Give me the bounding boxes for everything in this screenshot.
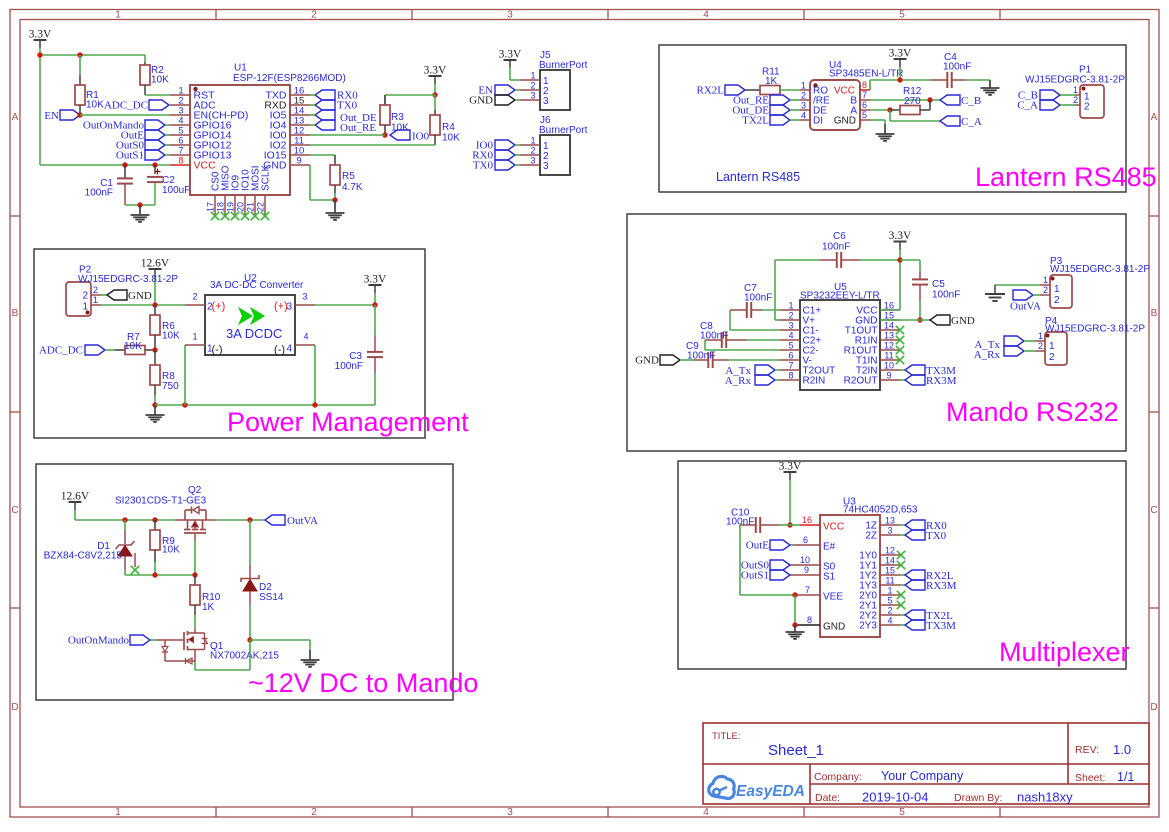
svg-text:BZX84-C8V2,215: BZX84-C8V2,215 — [44, 551, 123, 562]
svg-text:100uF: 100uF — [162, 185, 190, 196]
svg-text:TITLE:: TITLE: — [712, 731, 741, 742]
svg-text:3: 3 — [801, 101, 806, 111]
svg-text:Lantern RS485: Lantern RS485 — [975, 162, 1157, 192]
svg-text:GND: GND — [469, 95, 493, 107]
junction (155,575) — [152, 572, 157, 577]
junction (920,320) — [917, 317, 922, 322]
resistor R11 — [745, 67, 800, 95]
svg-text:EasyEDA: EasyEDA — [736, 783, 805, 800]
svg-text:EN: EN — [44, 110, 59, 122]
svg-text:3: 3 — [530, 156, 535, 166]
svg-text:8: 8 — [788, 371, 793, 381]
svg-text:WJ15EDGRC-3.81-2P: WJ15EDGRC-3.81-2P — [1050, 264, 1150, 275]
net flag OutS0 (U3) — [741, 560, 790, 572]
svg-text:VEE: VEE — [823, 592, 843, 603]
ground (D2) — [301, 650, 320, 667]
svg-text:1: 1 — [192, 332, 197, 342]
junction (155,520) — [152, 517, 157, 522]
net flag OutVA (P3) — [1010, 290, 1041, 313]
wire U4 pin6 A — [870, 109, 890, 111]
svg-text:1: 1 — [1038, 331, 1043, 341]
svg-text:3.3V: 3.3V — [364, 274, 387, 286]
net flag TX0 (J6) — [473, 160, 520, 172]
net flag Out_DE (U4) — [732, 105, 790, 117]
svg-text:2: 2 — [887, 606, 892, 616]
svg-text:E#: E# — [823, 542, 836, 553]
svg-text:ADC_DC: ADC_DC — [104, 100, 148, 112]
svg-text:WJ15EDGRC-3.81-2P: WJ15EDGRC-3.81-2P — [1025, 75, 1125, 86]
svg-text:R2IN: R2IN — [803, 376, 826, 387]
svg-text:13: 13 — [885, 516, 895, 526]
capacitor C8 — [700, 321, 780, 350]
svg-text:10: 10 — [884, 361, 894, 371]
resistor R1 — [75, 55, 104, 115]
svg-text:Company:: Company: — [814, 771, 862, 783]
wire U1 pin12 to IO0 — [310, 134, 385, 136]
power flag 3.3V (U2) — [364, 274, 387, 294]
svg-text:2: 2 — [178, 96, 183, 106]
wire C4 to ground — [965, 79, 990, 81]
ground flag GND (C9) — [635, 355, 680, 367]
net flag ADC_DC (R7) — [39, 345, 105, 357]
svg-text:BurnerPort: BurnerPort — [539, 60, 588, 71]
svg-text:2: 2 — [1054, 295, 1060, 306]
junction (155,165) — [152, 162, 157, 167]
wire U1 pin11 to R4 — [310, 144, 435, 146]
svg-text:ESP-12F(ESP8266MOD): ESP-12F(ESP8266MOD) — [233, 73, 346, 84]
net flag OutS1 — [116, 150, 170, 162]
svg-text:2: 2 — [93, 285, 98, 295]
svg-text:GND: GND — [834, 116, 856, 127]
junction (250,520) — [247, 517, 252, 522]
ground flag GND (P2) — [101, 290, 152, 302]
power flag 3.3V (U5) — [889, 230, 912, 250]
svg-text:3: 3 — [178, 106, 183, 116]
svg-text:10K: 10K — [442, 133, 460, 144]
svg-text:1: 1 — [801, 81, 806, 91]
svg-text:750: 750 — [162, 381, 179, 392]
wire A to C_A — [890, 110, 940, 121]
svg-text:8: 8 — [862, 80, 867, 90]
junction (250,640) — [247, 637, 252, 642]
no-connect U3 pin y=595 — [897, 591, 905, 599]
svg-text:100nF: 100nF — [744, 293, 772, 304]
svg-text:15: 15 — [884, 311, 894, 321]
junction (930,100) — [927, 97, 932, 102]
net flag C_A (P1) — [1017, 100, 1060, 112]
svg-text:2: 2 — [1073, 95, 1078, 105]
svg-text:2: 2 — [1049, 352, 1055, 363]
svg-text:REV:: REV: — [1075, 744, 1099, 756]
IC U3 74HC4052D — [790, 497, 918, 638]
svg-text:5: 5 — [899, 10, 905, 21]
net flag OutOnMando (Q1) — [68, 635, 150, 647]
connector P3 — [1040, 256, 1150, 308]
svg-text:4.7K: 4.7K — [342, 182, 363, 193]
svg-text:GND: GND — [951, 315, 975, 327]
ground flag GND (J5) — [469, 95, 520, 107]
title block — [703, 723, 1149, 805]
svg-text:3.3V: 3.3V — [889, 48, 912, 60]
svg-text:Out_RE: Out_RE — [340, 122, 376, 134]
connector P1 — [1025, 65, 1125, 119]
junction (385,135) — [382, 132, 387, 137]
svg-text:3.3V: 3.3V — [29, 29, 52, 41]
svg-text:2: 2 — [311, 10, 317, 21]
ground (R8) — [146, 405, 165, 422]
svg-text:GND: GND — [635, 355, 659, 367]
net flag RX3M (U5) — [900, 375, 957, 387]
svg-text:7: 7 — [862, 90, 867, 100]
svg-text:5: 5 — [788, 341, 793, 351]
svg-text:3A DCDC: 3A DCDC — [226, 326, 282, 341]
svg-text:WJ15EDGRC-3.81-2P: WJ15EDGRC-3.81-2P — [1045, 324, 1145, 335]
svg-text:4: 4 — [178, 116, 183, 126]
no-connect pin 18 — [221, 212, 229, 220]
IC U4 SP3485EN — [800, 60, 903, 130]
net flag TX2L — [742, 115, 790, 127]
junction (795,625) — [792, 622, 797, 627]
svg-text:OutVA: OutVA — [287, 515, 318, 527]
net flag OutE — [746, 540, 790, 552]
svg-text:100nF: 100nF — [687, 351, 715, 362]
svg-text:10: 10 — [800, 555, 810, 565]
net flag RX0 (U1) — [310, 90, 358, 102]
resistor R10 — [190, 575, 221, 629]
resistor R6 — [150, 305, 180, 350]
svg-text:1: 1 — [530, 136, 535, 146]
svg-text:Q2: Q2 — [188, 485, 202, 496]
svg-text:VCC: VCC — [194, 160, 217, 172]
wire C10 loop to VEE — [740, 525, 795, 595]
svg-text:1: 1 — [1054, 284, 1060, 295]
junction (80,55) — [77, 52, 82, 57]
wire U4 pin5 GND — [870, 120, 885, 124]
svg-text:7: 7 — [805, 585, 810, 595]
svg-text:3.3V: 3.3V — [889, 230, 912, 242]
resistor R7 — [105, 332, 155, 355]
svg-text:17: 17 — [206, 202, 216, 212]
svg-text:Drawn By:: Drawn By: — [954, 792, 1002, 804]
net flag TX3M (U5) — [900, 365, 956, 377]
svg-text:5: 5 — [887, 596, 892, 606]
junction (900,260) — [897, 257, 902, 262]
no-connect U5 pin at y=330 — [896, 326, 904, 334]
svg-text:10K: 10K — [86, 100, 104, 111]
svg-text:11: 11 — [884, 351, 893, 361]
svg-text:18: 18 — [216, 202, 226, 212]
net flag RX0 (J6) — [472, 150, 520, 162]
net flag A_Rx (P4) — [974, 346, 1035, 361]
capacitor C2 (polarized) — [147, 165, 190, 205]
net flag A_Tx (U5) — [725, 365, 780, 377]
svg-text:Lantern RS485: Lantern RS485 — [716, 170, 800, 184]
capacitor C7 — [730, 283, 780, 330]
svg-text:OutE: OutE — [746, 540, 770, 552]
svg-text:4: 4 — [887, 616, 892, 626]
power flag 3.3V (U1 area) — [29, 29, 52, 49]
svg-text:2: 2 — [311, 807, 317, 818]
svg-text:3: 3 — [543, 161, 549, 172]
svg-text:4: 4 — [287, 344, 293, 355]
svg-text:GND: GND — [128, 290, 152, 302]
svg-text:4: 4 — [788, 331, 793, 341]
svg-text:A_Rx: A_Rx — [974, 349, 1001, 361]
svg-text:ADC_DC: ADC_DC — [39, 345, 83, 357]
transistor Q2 SI2301CDS — [115, 485, 215, 541]
svg-text:4: 4 — [303, 332, 308, 342]
svg-text:3: 3 — [302, 292, 307, 302]
power flag 3.3V (R3/R4) — [424, 65, 447, 85]
wire gate rail — [125, 574, 195, 576]
resistor R5 — [310, 155, 363, 200]
no-connect U5 pin at y=360 — [896, 356, 904, 364]
svg-text:5: 5 — [899, 807, 905, 818]
net flag TX3M (U3) — [900, 620, 956, 632]
svg-text:TX2L: TX2L — [742, 115, 769, 127]
net flag Out_RE (U4) — [733, 95, 790, 107]
svg-text:A: A — [12, 112, 19, 123]
zener diode D1 — [44, 520, 135, 575]
svg-text:BurnerPort: BurnerPort — [539, 125, 588, 136]
wire U2 pin1 — [184, 345, 186, 405]
capacitor C6 — [775, 231, 900, 268]
wire Q2 gate — [194, 541, 196, 575]
net flag C_B (U4) — [940, 95, 981, 107]
svg-text:(+): (+) — [212, 301, 226, 313]
svg-text:3A DC-DC Converter: 3A DC-DC Converter — [210, 280, 304, 291]
svg-text:R4: R4 — [442, 122, 455, 133]
junction (195,575) — [192, 572, 197, 577]
net flag RX0 (U3) — [900, 520, 947, 532]
wire ground to P3 pin1 — [995, 285, 1040, 294]
svg-text:20: 20 — [236, 202, 246, 212]
svg-text:TX0: TX0 — [926, 530, 947, 542]
power flag 3.3V (U4) — [889, 48, 912, 68]
svg-text:U1: U1 — [234, 63, 247, 74]
svg-text:C: C — [11, 505, 18, 516]
svg-text:1: 1 — [1073, 85, 1078, 95]
svg-text:1: 1 — [1043, 275, 1048, 285]
no-connect U5 pin at y=350 — [896, 346, 904, 354]
svg-text:2: 2 — [1084, 102, 1090, 113]
junction (890,110) — [887, 107, 892, 112]
svg-text:12.6V: 12.6V — [141, 258, 170, 270]
net flag OutVA (Q2) — [265, 515, 318, 527]
svg-text:1.0: 1.0 — [1113, 742, 1131, 757]
svg-text:TX0: TX0 — [473, 160, 494, 172]
capacitor C10 — [726, 508, 790, 534]
no-connect pin 22 — [261, 212, 269, 220]
junction (375,305) — [372, 302, 377, 307]
svg-text:1/1: 1/1 — [1117, 770, 1134, 784]
net flag C_B (P1) — [1018, 90, 1060, 102]
svg-text:Power Management: Power Management — [227, 407, 469, 437]
junction (80,115) — [77, 112, 82, 117]
svg-text:13: 13 — [884, 331, 894, 341]
svg-text:3: 3 — [543, 96, 549, 107]
svg-text:D: D — [11, 702, 18, 713]
IC U5 SP3232EEY — [780, 282, 900, 390]
svg-text:DI: DI — [813, 116, 823, 127]
connector P4 — [1035, 316, 1145, 365]
wire 3.3V to R4 — [434, 84, 436, 95]
wire 3.3V to U3 VCC — [789, 480, 791, 525]
svg-text:C: C — [1150, 505, 1157, 516]
svg-text:C5: C5 — [932, 279, 945, 290]
svg-text:3: 3 — [507, 807, 513, 818]
block border Mando RS232 — [627, 214, 1126, 451]
wire U2 pin4 — [314, 345, 316, 405]
svg-text:4: 4 — [703, 10, 709, 21]
svg-text:1: 1 — [887, 586, 892, 596]
svg-text:Multiplexer: Multiplexer — [999, 637, 1130, 667]
svg-text:10K: 10K — [124, 341, 142, 352]
svg-text:15: 15 — [885, 566, 895, 576]
svg-text:6: 6 — [862, 100, 867, 110]
svg-text:100nF: 100nF — [85, 188, 113, 199]
net flag RX3M (U3) — [900, 580, 957, 592]
svg-text:100nF: 100nF — [335, 361, 363, 372]
svg-text:SCLK: SCLK — [261, 165, 272, 191]
block border Power Management — [34, 249, 425, 438]
svg-text:270: 270 — [904, 96, 921, 107]
resistor R2 — [140, 55, 169, 95]
wire 3.3V to J5 pin1 — [510, 67, 520, 80]
wire V+ loop — [775, 260, 780, 320]
svg-text:2: 2 — [1038, 341, 1043, 351]
transistor Q1 NX7002AK — [150, 629, 279, 664]
wire Q1 source — [195, 640, 250, 670]
net flag OutOnMando — [83, 120, 170, 132]
svg-text:9: 9 — [296, 156, 301, 167]
svg-text:14: 14 — [885, 556, 895, 566]
wire 3.3V to R1/R2 — [40, 48, 145, 165]
ground (U1 caps) — [131, 205, 150, 222]
junction (335,200) — [332, 197, 337, 202]
wire 3.3V to VCC — [880, 249, 900, 310]
junction (790,525) — [787, 522, 792, 527]
svg-text:SP3485EN-L/TR: SP3485EN-L/TR — [829, 69, 903, 80]
svg-text:~12V DC to Mando: ~12V DC to Mando — [248, 668, 478, 698]
svg-text:100nF: 100nF — [822, 242, 850, 253]
svg-text:nash18xy: nash18xy — [1017, 790, 1073, 805]
wire U2 pin3 to 3.3V — [315, 304, 375, 306]
junction (40,55) — [37, 52, 42, 57]
net flag OutS0 — [116, 140, 170, 152]
svg-text:OutVA: OutVA — [1010, 301, 1041, 313]
wire VEE to GND — [794, 595, 796, 625]
svg-text:(-): (-) — [274, 344, 285, 356]
capacitor C9 — [680, 341, 780, 368]
wire R2 to U1 pin1 — [145, 94, 170, 96]
junction (185,405) — [182, 402, 187, 407]
svg-text:3: 3 — [287, 302, 293, 313]
svg-text:6: 6 — [178, 136, 183, 146]
svg-text:WJ15EDGRC-3.81-2P: WJ15EDGRC-3.81-2P — [78, 274, 178, 285]
ground (U4) — [876, 124, 895, 141]
power flag 12.6V (P2) — [141, 258, 170, 278]
svg-text:6: 6 — [803, 535, 808, 545]
no-connect U3 pin y=565 — [897, 561, 905, 569]
net flag ADC_DC — [104, 100, 169, 112]
svg-text:2019-10-04: 2019-10-04 — [862, 790, 929, 805]
schottky diode D2 — [241, 520, 284, 640]
svg-text:Date:: Date: — [815, 792, 840, 804]
net flag RX2L — [697, 85, 746, 97]
capacitor C3 — [335, 305, 383, 405]
svg-text:3: 3 — [530, 91, 535, 101]
no-connect U5 pin at y=340 — [896, 336, 904, 344]
svg-text:100nF: 100nF — [943, 62, 971, 73]
svg-text:2Z: 2Z — [865, 531, 877, 542]
wire D2 to ground — [250, 640, 310, 650]
net flag OutS1 (U3) — [741, 570, 790, 582]
wire VCC row — [40, 164, 170, 166]
svg-text:2: 2 — [192, 292, 197, 302]
IC U1 ESP-12F — [170, 63, 346, 216]
svg-text:Sheet_1: Sheet_1 — [768, 742, 824, 759]
svg-text:1: 1 — [115, 807, 121, 818]
svg-text:2: 2 — [530, 81, 535, 91]
svg-text:5: 5 — [862, 110, 867, 120]
resistor R3 — [380, 95, 409, 135]
svg-text:16: 16 — [802, 515, 812, 525]
no-connect pin 20 — [241, 212, 249, 220]
junction (140,205) — [137, 202, 142, 207]
no-connect pin 21 — [251, 212, 259, 220]
no-connect pin 17 — [211, 212, 219, 220]
capacitor C4 — [930, 52, 971, 88]
svg-text:100nF: 100nF — [700, 331, 728, 342]
net flag RX2L (U3) — [900, 570, 954, 582]
resistor R12 — [890, 86, 930, 115]
junction (125,520) — [122, 517, 127, 522]
svg-text:A: A — [1151, 112, 1158, 123]
junction (795,595) — [792, 592, 797, 597]
resistor R9 — [150, 520, 180, 575]
block border Lantern RS485 — [659, 45, 1126, 192]
svg-text:2: 2 — [82, 291, 88, 302]
connector P2 — [66, 265, 178, 317]
junction (900,80) — [897, 77, 902, 82]
net flag OutE — [121, 130, 170, 142]
svg-text:7: 7 — [788, 361, 793, 371]
junction (315,405) — [312, 402, 317, 407]
svg-text:RX2L: RX2L — [697, 85, 725, 97]
svg-text:RX3M: RX3M — [926, 375, 957, 387]
svg-text:1: 1 — [178, 86, 183, 96]
svg-text:10K: 10K — [151, 75, 169, 86]
svg-text:22: 22 — [256, 202, 266, 212]
net flag A_Tx (P4) — [974, 336, 1035, 351]
wire U4 VCC net — [870, 67, 930, 90]
wire GND pin15 — [880, 319, 930, 321]
net flag IO0 — [390, 130, 430, 143]
svg-text:4: 4 — [703, 807, 709, 818]
svg-text:SS14: SS14 — [259, 592, 284, 603]
net flag TX0 (U3) — [900, 530, 947, 542]
svg-text:R2OUT: R2OUT — [844, 376, 878, 387]
no-connect U3 pin y=555 — [897, 551, 905, 559]
svg-text:S1: S1 — [823, 572, 836, 583]
svg-text:21: 21 — [246, 202, 256, 212]
svg-text:SI2301CDS-T1-GE3: SI2301CDS-T1-GE3 — [115, 496, 207, 507]
svg-text:1: 1 — [115, 10, 121, 21]
svg-text:C_A: C_A — [1017, 100, 1038, 112]
EasyEDA logo — [709, 776, 805, 800]
svg-text:OutOnMando: OutOnMando — [68, 635, 130, 647]
